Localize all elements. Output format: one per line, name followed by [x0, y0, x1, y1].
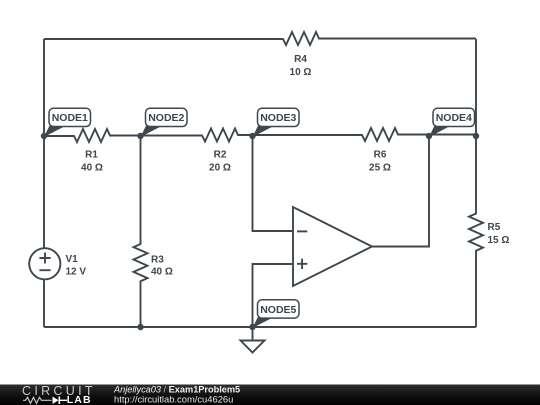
svg-text:R4: R4 [294, 54, 307, 65]
svg-text:10 Ω: 10 Ω [290, 67, 312, 78]
svg-text:R5: R5 [488, 222, 501, 233]
svg-text:R3: R3 [151, 255, 164, 266]
svg-text:NODE1: NODE1 [52, 112, 88, 124]
svg-text:V1: V1 [66, 254, 79, 265]
svg-text:15 Ω: 15 Ω [488, 235, 510, 246]
svg-text:40 Ω: 40 Ω [81, 163, 103, 174]
svg-text:20 Ω: 20 Ω [209, 163, 231, 174]
svg-text:NODE2: NODE2 [148, 112, 184, 124]
svg-text:LAB: LAB [67, 394, 92, 405]
svg-text:NODE5: NODE5 [260, 304, 296, 316]
svg-text:NODE3: NODE3 [260, 112, 296, 124]
svg-text:40 Ω: 40 Ω [151, 267, 173, 278]
svg-text:R1: R1 [85, 150, 98, 161]
svg-text:R2: R2 [214, 150, 227, 161]
svg-text:http://circuitlab.com/cu4626u: http://circuitlab.com/cu4626u [114, 393, 233, 404]
svg-text:R6: R6 [374, 150, 387, 161]
svg-text:NODE4: NODE4 [436, 112, 472, 124]
svg-text:25 Ω: 25 Ω [369, 163, 391, 174]
svg-text:12 V: 12 V [66, 267, 87, 278]
